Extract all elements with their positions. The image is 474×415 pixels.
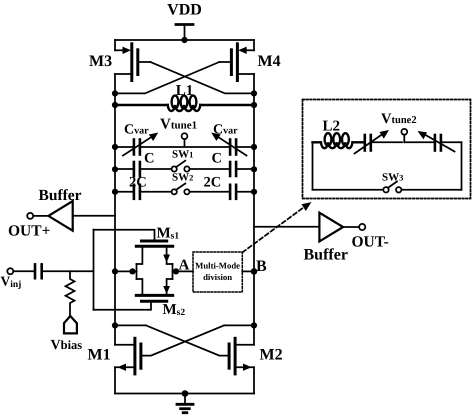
- node tank tap dot: [112, 268, 118, 274]
- inductor L1: [115, 96, 254, 111]
- svg-text:Buffer: Buffer: [39, 187, 82, 204]
- svg-text:OUT+: OUT+: [8, 223, 51, 240]
- ground: [177, 394, 193, 413]
- varactor inset left: [355, 130, 403, 154]
- transistor Ms1: [136, 241, 172, 264]
- wire cross-coupling M4 gate to left node: [115, 62, 230, 93]
- wire right tank: [253, 93, 255, 344]
- transistor M4: [231, 40, 254, 93]
- switch SW2: [172, 184, 190, 195]
- wire callout dashed arrow: [243, 202, 312, 252]
- transistor M2: [229, 338, 254, 393]
- svg-text:SW3: SW3: [382, 172, 403, 184]
- svg-text:A: A: [179, 258, 190, 274]
- node VDD dot: [181, 37, 187, 43]
- svg-text:C: C: [144, 151, 154, 167]
- svg-text:Buffer: Buffer: [304, 247, 348, 264]
- capacitor C right: [190, 162, 255, 176]
- node left drain dot: [112, 90, 118, 96]
- wire Ms1 gate feed: [94, 230, 155, 240]
- svg-text:Cvar: Cvar: [124, 123, 149, 138]
- op-amp buffer left: [48, 201, 72, 231]
- capacitor C left: [115, 162, 172, 176]
- wire switch left bracket: [116, 264, 137, 279]
- op-amp buffer right: [319, 213, 343, 242]
- resistor bias: [66, 271, 75, 316]
- node L1 right dot: [251, 102, 257, 108]
- svg-text:M4: M4: [258, 53, 281, 70]
- node right drain dot: [251, 90, 257, 96]
- wire box to node B: [242, 270, 254, 272]
- svg-text:C: C: [212, 151, 222, 167]
- svg-text:Vbias: Vbias: [51, 338, 83, 353]
- inductor L2: [313, 133, 364, 148]
- wire bottom cross-coupling left rail: [116, 325, 229, 355]
- wire bottom cross-coupling right rail: [141, 325, 254, 355]
- svg-text:B: B: [256, 258, 267, 275]
- block inset dashed box: [303, 100, 471, 199]
- terminal Vinj: [7, 268, 13, 274]
- node M2 drain dot: [251, 322, 257, 328]
- node 2C row right dot: [251, 189, 257, 195]
- node C row right dot: [251, 166, 257, 172]
- capacitor 2C right: [190, 185, 255, 199]
- node varactor row right dot: [251, 144, 257, 150]
- node varactor row left dot: [112, 144, 118, 150]
- capacitor 2C left: [115, 185, 172, 199]
- transistor M3: [115, 40, 138, 93]
- wire buffer right input: [254, 226, 319, 228]
- node M1 drain dot: [112, 322, 118, 328]
- varactor Cvar right: [186, 133, 254, 156]
- varactor Cvar left: [115, 133, 183, 156]
- svg-text:Multi-Mode: Multi-Mode: [195, 261, 240, 271]
- terminal OUT-: [343, 224, 365, 230]
- switch SW1: [172, 161, 190, 172]
- transistor M1: [115, 338, 141, 393]
- svg-text:M3: M3: [89, 53, 112, 70]
- svg-text:SW1: SW1: [172, 149, 193, 161]
- svg-text:division: division: [203, 272, 232, 282]
- block Multi-Mode division box: [193, 252, 242, 292]
- node 2C row left dot: [112, 189, 118, 195]
- power Vbias symbol: [64, 316, 77, 333]
- node switch left dot: [129, 268, 135, 274]
- wire inset right side: [461, 142, 463, 190]
- wire VDD rail: [115, 39, 254, 41]
- terminal Vtune1: [182, 133, 188, 147]
- svg-text:2C: 2C: [204, 175, 222, 191]
- wire cap to gate-feed: [43, 270, 93, 272]
- svg-text:OUT-: OUT-: [352, 234, 389, 251]
- wire Ms2 gate feed: [94, 303, 152, 310]
- switch SW3: [313, 182, 462, 193]
- VDD supply symbol: [176, 25, 193, 41]
- capacitor injection coupling: [35, 264, 42, 278]
- svg-text:2C: 2C: [129, 175, 147, 191]
- wire bottom rail: [115, 393, 254, 395]
- node A dot: [173, 268, 179, 274]
- wire gate feed vertical: [93, 230, 95, 310]
- svg-text:M1: M1: [88, 347, 111, 364]
- svg-text:VDD: VDD: [167, 2, 202, 19]
- wire left tank: [114, 93, 116, 344]
- node L1 left dot: [112, 102, 118, 108]
- wire buffer left output: [73, 215, 115, 217]
- svg-text:M2: M2: [260, 347, 283, 364]
- wire Vinj to cap: [13, 270, 33, 272]
- varactor inset right: [404, 131, 461, 152]
- svg-text:Vtune1: Vtune1: [160, 117, 197, 133]
- node tail dot: [182, 390, 189, 397]
- terminal OUT+: [27, 213, 48, 219]
- transistor Ms2: [136, 279, 172, 301]
- node C row left dot: [112, 166, 118, 172]
- wire switch right bracket: [173, 264, 194, 279]
- wire inset left side: [312, 142, 314, 190]
- terminal Vtune2: [401, 129, 407, 142]
- svg-text:SW2: SW2: [172, 171, 193, 183]
- node B dot: [251, 268, 258, 275]
- wire cross-coupling M3 gate to right node: [140, 62, 255, 93]
